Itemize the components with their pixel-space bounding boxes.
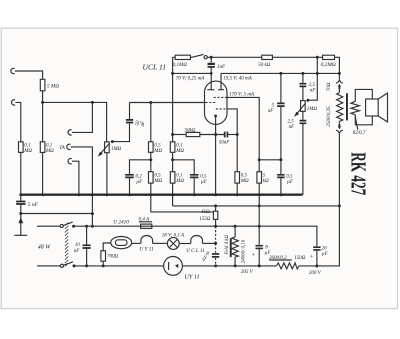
wire R 5M to node A	[42, 91, 44, 142]
svg-text:1MΩ: 1MΩ	[111, 147, 122, 152]
svg-text:0,5: 0,5	[241, 174, 248, 179]
svg-text:UY 11: UY 11	[184, 274, 199, 281]
capacitor 0,5 µF (right)	[277, 175, 284, 178]
switch pole 1	[45, 225, 60, 227]
jack J4 (TA)	[67, 144, 71, 149]
field coil Feld 4kΩ	[234, 226, 236, 237]
svg-text:U 2410: U 2410	[113, 220, 129, 226]
switch blade (grid)	[190, 56, 192, 58]
svg-text:nF: nF	[310, 89, 317, 94]
earth symbol	[20, 214, 22, 236]
capacitor 5 nF	[20, 195, 22, 201]
anode bar 2	[218, 89, 224, 91]
svg-text:0,5: 0,5	[286, 175, 293, 180]
svg-text:2500/0,35: 2500/0,35	[327, 106, 332, 127]
svg-text:kΩ: kΩ	[263, 179, 269, 184]
svg-text:U C L 11: U C L 11	[186, 248, 205, 254]
capacitor 10 nF	[86, 226, 88, 244]
speaker wiring loop	[355, 89, 372, 124]
svg-text:MΩ: MΩ	[45, 149, 54, 154]
wire to bus	[42, 152, 44, 194]
node grid cap	[210, 56, 213, 59]
svg-text:18 V; 0,1 A: 18 V; 0,1 A	[162, 233, 185, 238]
wire J2 down	[16, 102, 21, 141]
svg-text:µF: µF	[136, 180, 143, 185]
measure line 70 V; 0,25 mA	[173, 72, 212, 74]
potentiometer 1MΩ (volume)	[105, 142, 110, 153]
svg-text:200 V: 200 V	[309, 271, 322, 276]
wire earth node to mains	[21, 213, 93, 215]
wire J3 up to antenna line	[72, 102, 92, 132]
capacitor 0,2 µF	[130, 160, 151, 174]
svg-text:50 kΩ: 50 kΩ	[258, 63, 270, 68]
heater wire	[132, 242, 141, 244]
wire 170V line	[227, 97, 259, 171]
svg-text:µF: µF	[322, 252, 329, 257]
resistor 0,1MΩ (grid leak, horizontal)	[173, 56, 176, 58]
svg-text:µF: µF	[287, 180, 294, 185]
pot wiper arrow	[101, 143, 110, 154]
grid dashes row1	[214, 96, 227, 98]
electrolytic 8 µF (left, dashed leads)	[215, 243, 217, 252]
svg-text:TA: TA	[59, 145, 65, 151]
capacitor 50nF (cathode)	[225, 132, 228, 138]
connector plug (bottom)	[338, 121, 340, 123]
wire J1 to R 5M	[15, 71, 43, 79]
switch pole 2	[45, 265, 61, 267]
resistor 0,5 MΩ (tube right)	[235, 172, 240, 183]
jack J3	[68, 130, 72, 135]
grid wire to tube	[130, 102, 206, 104]
grid dashes row3	[216, 108, 227, 110]
svg-text:0,1: 0,1	[176, 174, 182, 179]
svg-text:MΩ: MΩ	[23, 149, 32, 154]
svg-text:10: 10	[75, 243, 81, 248]
connector socket (top)	[336, 80, 343, 83]
resistor 0,5 MΩ (upper)	[150, 103, 152, 142]
svg-text:48 W: 48 W	[38, 244, 52, 251]
speaker return wire	[317, 134, 339, 266]
electrolytic 8 µF (right)	[258, 195, 260, 245]
resistor 0,1 MΩ (upper mid)	[172, 57, 174, 142]
svg-text:UCL 11: UCL 11	[143, 62, 167, 71]
wire J4 down to mains pole	[71, 147, 93, 226]
UCL11 heater bump	[191, 236, 203, 244]
resistor 0,2MΩ	[323, 55, 335, 59]
svg-text:MΩ: MΩ	[240, 179, 249, 184]
switch contact circle	[204, 56, 207, 59]
antenna jack J1	[11, 68, 15, 73]
wire to bus	[20, 152, 22, 194]
svg-text:nF: nF	[268, 109, 275, 114]
svg-text:+: +	[310, 253, 314, 260]
transformer core	[346, 93, 348, 120]
urdox resistor U2410	[111, 237, 132, 249]
pot wiper node	[111, 140, 114, 143]
svg-text:MΩ: MΩ	[175, 149, 184, 154]
wire tube lead to 0,5M	[227, 109, 237, 172]
svg-text:5 nF: 5 nF	[28, 202, 39, 208]
capacitor 1nF	[210, 57, 212, 62]
antenna jack J2	[11, 100, 15, 105]
node A junction	[41, 101, 44, 104]
svg-text:205 V: 205 V	[241, 270, 254, 275]
resistor 0,1 MΩ (second)	[40, 142, 45, 153]
jog wire 5k to 0,5µF	[259, 159, 281, 161]
rail rectifier to dropper	[182, 265, 276, 267]
wire antenna line	[43, 102, 107, 141]
resistor 50 kΩ (top)	[262, 55, 273, 59]
svg-text:MΩ: MΩ	[175, 179, 184, 184]
mains terminal stub 2	[37, 265, 45, 267]
capacitor 5 nF (tone)	[280, 73, 282, 102]
rectifier UY 11	[164, 257, 183, 276]
cathode dot	[214, 115, 217, 118]
capacitor 2,5 nF (lower)	[302, 111, 304, 119]
capacitor 2,5 nF (upper)	[302, 73, 304, 83]
capacitor 50 nF (coupling)	[126, 120, 133, 123]
cathode wire to bus	[215, 116, 217, 195]
svg-text:µF: µF	[201, 180, 208, 185]
triode/pentode tube UCL11 outline	[205, 81, 228, 124]
svg-text:1nF: 1nF	[217, 65, 226, 70]
resistor 50kΩ (cathode)	[173, 134, 187, 136]
svg-text:2,5: 2,5	[288, 120, 295, 125]
dial lamp 18V 0,1A	[167, 238, 179, 250]
resistor 0,5 MΩ (lower)	[149, 172, 154, 183]
svg-text:50kΩ: 50kΩ	[185, 128, 196, 133]
svg-text:RK 427: RK 427	[347, 152, 371, 195]
bias resistor 45Ω/155Ω	[215, 206, 217, 211]
UY11 heater bump	[141, 236, 153, 244]
capacitor 0,5 µF (mid)	[173, 160, 195, 174]
svg-text:0,5: 0,5	[200, 175, 207, 180]
speaker magnet box	[366, 99, 379, 116]
resistor 0,1 MΩ (left)	[19, 142, 24, 153]
svg-text:150Ω: 150Ω	[294, 256, 306, 261]
svg-text:0,5: 0,5	[154, 174, 161, 179]
svg-text:0,1MΩ: 0,1MΩ	[173, 63, 187, 68]
anode bar 1	[207, 89, 214, 91]
svg-text:24000/ 0,16: 24000/ 0,16	[241, 239, 246, 263]
svg-text:20: 20	[322, 246, 328, 251]
switch link (mechanical)	[65, 222, 68, 266]
grid dashes row2	[206, 102, 217, 104]
mains terminal stub 1	[37, 225, 45, 227]
fuse 0,4 A	[141, 224, 152, 228]
wire to bias resistor tap	[151, 211, 214, 213]
resistor 0,1 MΩ (lower mid)	[170, 172, 175, 183]
svg-text:5 MΩ: 5 MΩ	[47, 84, 59, 90]
resistor 5 MΩ	[40, 79, 45, 91]
svg-text:45Ω: 45Ω	[201, 210, 210, 215]
jack J5	[68, 159, 72, 164]
svg-text:70Ω: 70Ω	[327, 82, 332, 91]
svg-text:19,5 V; 40 mA: 19,5 V; 40 mA	[223, 76, 252, 81]
svg-text:700Ω: 700Ω	[107, 254, 119, 259]
wire fuse to 20µF corner	[152, 226, 317, 246]
speaker cone	[378, 93, 387, 122]
measure line 19,5 V; 40 mA	[221, 72, 339, 74]
svg-text:50nF: 50nF	[219, 141, 231, 146]
electrolytic 20 µF	[313, 246, 320, 248]
svg-text:nF: nF	[74, 249, 81, 254]
svg-text:nF: nF	[141, 120, 146, 127]
svg-text:+: +	[252, 252, 256, 259]
svg-text:1MΩ: 1MΩ	[307, 107, 318, 112]
svg-text:MΩ: MΩ	[153, 179, 162, 184]
output transformer primary 2500/0,35	[337, 93, 343, 122]
svg-text:MΩ: MΩ	[153, 149, 162, 154]
speaker voice coil	[351, 101, 360, 115]
potentiometer 1MΩ (tone)	[301, 101, 306, 112]
wire line A to speaker return	[173, 205, 340, 207]
svg-text:0,2MΩ: 0,2MΩ	[321, 62, 336, 68]
wire wiper to 50nF	[112, 124, 129, 142]
svg-text:0,2: 0,2	[136, 175, 143, 180]
resistor 700Ω	[101, 251, 106, 261]
wire J5 down to bus	[72, 161, 79, 195]
svg-text:nF: nF	[289, 125, 296, 130]
svg-text:Feld 4 kΩ: Feld 4 kΩ	[225, 235, 230, 256]
svg-text:82/0,7: 82/0,7	[353, 131, 366, 136]
connector plug (top)	[338, 84, 341, 87]
svg-text:U Y 11: U Y 11	[139, 246, 154, 252]
wire to speaker connector	[338, 73, 340, 79]
connector socket (bottom)	[336, 130, 343, 133]
ground bus	[21, 194, 303, 196]
speaker label 82/0,7	[355, 117, 358, 130]
resistor 5 kΩ	[257, 172, 262, 183]
wire pot to bus	[106, 153, 108, 195]
svg-text:155Ω: 155Ω	[199, 217, 211, 222]
svg-text:2,5: 2,5	[309, 83, 316, 88]
wire pole1 to fuse	[74, 225, 141, 227]
svg-text:70 V; 0,25 mA: 70 V; 0,25 mA	[176, 76, 205, 81]
svg-text:170 V; 5 mA: 170 V; 5 mA	[229, 92, 255, 97]
bottom rail to rectifier	[74, 265, 164, 267]
